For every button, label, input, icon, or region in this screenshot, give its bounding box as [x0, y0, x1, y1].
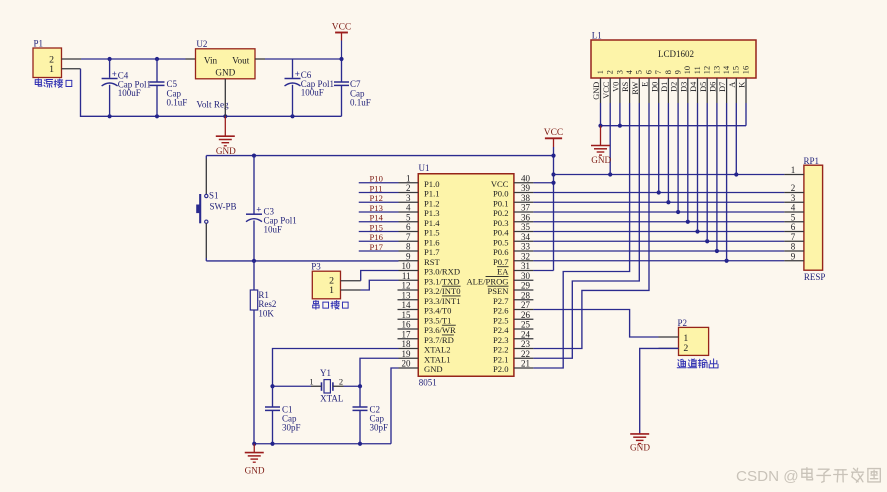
pin P2.1 [659, 336, 679, 338]
svg-text:4: 4 [791, 203, 796, 213]
svg-text:38: 38 [521, 193, 531, 203]
label C1 value [282, 404, 301, 432]
pin 20 GND [399, 359, 443, 374]
wire D3 drop [687, 103, 689, 222]
capacitor C6 [285, 59, 301, 116]
label C6 value [301, 70, 334, 98]
wire [359, 240, 399, 242]
label C2 value [370, 404, 389, 432]
svg-text:P3.4/T0: P3.4/T0 [424, 306, 451, 316]
svg-text:P16: P16 [370, 232, 384, 242]
junction [358, 442, 362, 446]
svg-text:11: 11 [693, 66, 702, 74]
wire [359, 221, 399, 223]
svg-text:2: 2 [683, 343, 688, 354]
junction [657, 190, 661, 194]
svg-text:P2: P2 [678, 318, 688, 328]
svg-text:5: 5 [406, 212, 411, 222]
svg-text:16: 16 [402, 320, 412, 330]
label P2 通道输出 [677, 359, 718, 368]
svg-text:16: 16 [741, 66, 750, 74]
wire [359, 231, 399, 233]
svg-text:RS: RS [621, 81, 630, 92]
svg-text:30pF: 30pF [370, 423, 389, 433]
svg-text:23: 23 [521, 339, 531, 349]
svg-text:Volt Reg: Volt Reg [196, 100, 229, 110]
wire VCC stem to EA [553, 147, 555, 271]
svg-text:P14: P14 [370, 213, 384, 223]
svg-text:P1.6: P1.6 [424, 237, 440, 247]
svg-text:VCC: VCC [332, 23, 352, 33]
pin 2 P1.1 [399, 183, 440, 198]
svg-text:29: 29 [521, 281, 531, 291]
pin 24 P2.3 [493, 329, 533, 344]
pin P2.2 [659, 347, 679, 349]
svg-text:2: 2 [406, 183, 411, 193]
pin 9 RP1 [784, 251, 804, 261]
pin 6 E [641, 70, 654, 103]
svg-text:6: 6 [791, 222, 796, 232]
junction [252, 154, 256, 158]
svg-text:CSDN @: CSDN @ [736, 468, 799, 485]
svg-text:1: 1 [329, 285, 334, 296]
svg-text:28: 28 [521, 290, 531, 300]
svg-text:10: 10 [683, 66, 692, 74]
pin Y1.2 [333, 385, 344, 387]
svg-text:P0.2: P0.2 [493, 208, 509, 218]
svg-text:D6: D6 [709, 82, 718, 92]
pin U2 Vin [186, 58, 196, 60]
svg-text:13: 13 [402, 290, 412, 300]
svg-text:A: A [728, 82, 737, 88]
svg-text:D2: D2 [670, 82, 679, 92]
pin 14 D7 [718, 65, 731, 103]
resistor pack RP1 [804, 165, 823, 270]
svg-text:Vout: Vout [232, 55, 250, 65]
junction [608, 172, 612, 176]
svg-text:GND: GND [591, 155, 611, 165]
wire P0.7 bus [533, 260, 784, 262]
svg-text:8: 8 [406, 242, 411, 252]
svg-text:33: 33 [521, 242, 531, 252]
svg-text:E: E [641, 82, 650, 87]
svg-text:10: 10 [402, 261, 412, 271]
pin 33 P0.6 [493, 242, 533, 257]
pin 10 D3 [679, 66, 692, 103]
svg-text:GND: GND [245, 465, 265, 475]
pin 10 P3.0/RXD [399, 261, 461, 276]
wire E net [533, 103, 649, 349]
capacitor C1 [265, 386, 280, 444]
pin 31 EA [497, 261, 533, 276]
svg-text:37: 37 [521, 203, 531, 213]
pin 40 VCC [491, 173, 534, 188]
pin 5 RP1 [784, 212, 804, 222]
wire P0.5 bus [533, 240, 784, 242]
svg-text:P2.5: P2.5 [493, 315, 509, 325]
svg-text:P3.0/RXD: P3.0/RXD [424, 267, 460, 277]
svg-text:U2: U2 [196, 39, 207, 49]
junction [666, 200, 670, 204]
junction [551, 181, 555, 185]
pin 37 P0.2 [493, 203, 533, 218]
pin 16 P3.6/WR [398, 320, 457, 335]
connector P1 [33, 39, 62, 78]
svg-text:P2.1: P2.1 [493, 354, 509, 364]
svg-text:EA: EA [497, 267, 509, 277]
pin 3 RP1 [784, 193, 804, 203]
wire P3.2 to RXD [361, 271, 399, 281]
svg-text:32: 32 [521, 251, 530, 261]
svg-text:SW-PB: SW-PB [210, 201, 237, 211]
svg-text:P0.7: P0.7 [493, 257, 509, 267]
pin 7 P1.6 [399, 232, 441, 247]
pin 35 P0.4 [493, 222, 533, 237]
pin 15 A [728, 66, 741, 103]
svg-text:P0.4: P0.4 [493, 228, 509, 238]
svg-text:VCC: VCC [491, 179, 509, 189]
junction [155, 57, 159, 61]
svg-text:P1.0: P1.0 [424, 179, 440, 189]
svg-text:P3.5/T1: P3.5/T1 [424, 315, 451, 325]
junction [270, 442, 274, 446]
svg-text:9: 9 [791, 251, 796, 261]
svg-text:8: 8 [664, 70, 673, 74]
pin 13 P3.3/INT1 [398, 290, 461, 305]
svg-text:P3.1/TXD: P3.1/TXD [424, 276, 460, 286]
junction [290, 114, 294, 118]
svg-text:100uF: 100uF [118, 88, 141, 98]
wire D6 drop [716, 103, 718, 251]
svg-text:1: 1 [596, 70, 605, 74]
svg-text:11: 11 [402, 271, 411, 281]
svg-text:P13: P13 [370, 203, 383, 213]
svg-text:9: 9 [674, 70, 683, 74]
pin P1.2 [62, 58, 82, 60]
wire P0.0 bus [533, 192, 784, 194]
pin P3.1 [341, 289, 361, 291]
pin 30 ALE/PROG [466, 271, 533, 286]
pin 7 RP1 [784, 232, 804, 242]
pin 1 P1.0 [399, 173, 440, 188]
svg-text:40: 40 [521, 173, 531, 183]
pin U2 GND [224, 79, 226, 117]
pin 8 RP1 [784, 242, 804, 252]
pin U2 Vout [255, 58, 265, 60]
svg-text:RP1: RP1 [804, 156, 820, 166]
watermark CSDN [736, 468, 880, 485]
svg-text:P1.7: P1.7 [424, 247, 440, 257]
svg-text:GND: GND [592, 82, 601, 100]
junction [339, 57, 343, 61]
wire [359, 201, 399, 203]
svg-text:36: 36 [521, 212, 531, 222]
wire [600, 103, 602, 126]
junction [270, 384, 274, 388]
wire P0.6 bus [533, 250, 784, 252]
ic U1 8051 body [418, 174, 514, 377]
crystal Y1 [309, 368, 343, 393]
label C7 value [350, 79, 371, 107]
svg-text:P1.1: P1.1 [424, 189, 440, 199]
wire [735, 103, 737, 175]
voltage regulator U2 [196, 39, 256, 79]
wire pin40 VCC [533, 182, 553, 184]
pin P1.1 [62, 68, 81, 70]
capacitor C4 [102, 59, 118, 116]
wire D4 drop [697, 103, 699, 232]
svg-text:8051: 8051 [419, 377, 437, 387]
junction [223, 114, 227, 118]
pin 22 P2.1 [493, 349, 533, 364]
capacitor C2 [353, 386, 368, 444]
svg-text:6: 6 [406, 222, 411, 232]
svg-text:P0.6: P0.6 [493, 247, 509, 257]
junction [705, 239, 709, 243]
svg-text:5: 5 [791, 212, 796, 222]
wire P0.1 bus [533, 201, 784, 203]
pin 4 P1.3 [399, 203, 440, 218]
pin 26 P2.5 [493, 310, 533, 325]
svg-text:6: 6 [644, 70, 653, 74]
svg-text:GND: GND [215, 68, 235, 78]
wire LCD GND row [601, 125, 747, 127]
svg-text:15: 15 [732, 66, 741, 74]
svg-text:13: 13 [712, 66, 721, 74]
label C5 value [167, 79, 188, 107]
wire D1 drop [667, 103, 669, 202]
svg-text:0.1uF: 0.1uF [167, 97, 188, 107]
pin 4 RS [621, 69, 634, 103]
pin 3 V0 [612, 70, 625, 103]
svg-text:26: 26 [521, 310, 531, 320]
svg-text:GND: GND [630, 442, 650, 452]
svg-text:D1: D1 [660, 82, 669, 92]
capacitor C7 [334, 59, 349, 116]
wire [359, 211, 399, 213]
junction [551, 154, 555, 158]
svg-text:XTAL1: XTAL1 [424, 354, 451, 364]
svg-text:10uF: 10uF [264, 224, 283, 234]
svg-text:P1: P1 [34, 39, 44, 49]
svg-text:7: 7 [406, 232, 411, 242]
svg-text:7: 7 [791, 232, 796, 242]
wire [359, 182, 399, 184]
svg-text:0.1uF: 0.1uF [350, 97, 371, 107]
wire P2.6 to P2 connector [533, 310, 658, 338]
svg-text:P2.2: P2.2 [493, 345, 509, 355]
svg-text:P1.5: P1.5 [424, 228, 440, 238]
pin 23 P2.2 [493, 339, 533, 354]
svg-text:3: 3 [615, 70, 624, 74]
switch S1 [196, 156, 208, 261]
svg-text:1: 1 [49, 64, 54, 75]
svg-text:1: 1 [309, 377, 313, 387]
pin 38 P0.1 [493, 193, 533, 208]
svg-text:25: 25 [521, 320, 531, 330]
svg-text:34: 34 [521, 232, 531, 242]
wire [609, 103, 611, 175]
wire [745, 103, 747, 126]
wire [619, 103, 621, 126]
wire P0.4 bus [533, 231, 784, 233]
pin 1 RP1 [784, 165, 804, 175]
junction [676, 210, 680, 214]
label C3 value [264, 207, 297, 235]
pin 11 D4 [689, 66, 702, 103]
wire GND pin20 [391, 368, 399, 444]
svg-text:22: 22 [521, 349, 530, 359]
pin 6 P1.5 [399, 222, 440, 237]
wire [359, 250, 399, 252]
svg-text:D5: D5 [699, 82, 708, 92]
label R1 value [258, 290, 276, 318]
pin P3.2 [341, 280, 361, 282]
wire Y1.2 [344, 385, 361, 387]
svg-text:1: 1 [791, 165, 796, 175]
svg-text:RST: RST [424, 257, 441, 267]
svg-text:P11: P11 [370, 183, 383, 193]
svg-text:RESP: RESP [804, 272, 826, 282]
pin 36 P0.3 [493, 212, 533, 227]
svg-text:P3.6/WR: P3.6/WR [424, 325, 456, 335]
svg-text:39: 39 [521, 183, 531, 193]
wire RS net [533, 103, 629, 368]
connector P3 [311, 262, 340, 299]
wire P1.1 to ground rail [81, 69, 342, 117]
svg-text:3: 3 [791, 193, 796, 203]
pin 39 P0.0 [493, 183, 533, 198]
pin 5 RW [631, 70, 644, 103]
pin 9 D2 [670, 70, 683, 103]
svg-text:12: 12 [703, 66, 712, 74]
svg-text:12: 12 [402, 281, 411, 291]
svg-text:P3: P3 [311, 262, 321, 272]
svg-text:GND: GND [216, 146, 236, 156]
svg-text:14: 14 [402, 300, 412, 310]
junction [734, 172, 738, 176]
svg-text:1: 1 [406, 173, 411, 183]
svg-text:P2.4: P2.4 [493, 325, 509, 335]
wire Y1.1 [273, 385, 312, 387]
wire P2.2 to ground [640, 348, 679, 433]
svg-text:D3: D3 [679, 82, 688, 92]
svg-text:24: 24 [521, 329, 531, 339]
pin 7 D0 [650, 70, 663, 103]
pin 27 P2.6 [493, 300, 533, 315]
svg-text:P2.3: P2.3 [493, 335, 509, 345]
junction [551, 172, 555, 176]
svg-text:P1.3: P1.3 [424, 208, 440, 218]
junction [695, 229, 699, 233]
svg-text:L1: L1 [592, 30, 602, 40]
svg-text:U1: U1 [419, 163, 430, 173]
wire XTAL2 net [273, 349, 399, 387]
wire VCC row to RP1 [554, 174, 785, 176]
svg-text:GND: GND [424, 364, 443, 374]
junction [725, 259, 729, 263]
pin 4 RP1 [784, 203, 804, 213]
svg-text:+: + [295, 69, 300, 79]
svg-text:31: 31 [521, 261, 530, 271]
pin 13 D6 [709, 66, 722, 103]
svg-text:LCD1602: LCD1602 [658, 49, 694, 59]
pin 16 K [738, 66, 751, 103]
svg-text:P1.2: P1.2 [424, 198, 440, 208]
pin 21 P2.0 [493, 359, 533, 374]
wire D5 drop [706, 103, 708, 241]
wire EA to VCC [533, 270, 553, 272]
svg-text:7: 7 [654, 70, 663, 74]
junction [108, 57, 112, 61]
pin 17 P3.7/RD [398, 329, 454, 344]
svg-text:+: + [256, 205, 261, 215]
svg-text:K: K [738, 82, 747, 88]
svg-text:30: 30 [521, 271, 531, 281]
svg-text:P0.3: P0.3 [493, 218, 509, 228]
wire [359, 192, 399, 194]
wire VCC rail [206, 155, 553, 157]
svg-text:Y1: Y1 [320, 368, 331, 378]
ic L1 LCD1602 body [591, 40, 756, 78]
pin 18 XTAL2 [399, 339, 451, 354]
pin 11 P3.1/TXD [399, 271, 460, 286]
svg-text:P1.4: P1.4 [424, 218, 440, 228]
svg-text:PSEN: PSEN [487, 286, 509, 296]
svg-text:100uF: 100uF [301, 88, 324, 98]
svg-text:P0.1: P0.1 [493, 198, 509, 208]
svg-text:P3.3/INT1: P3.3/INT1 [424, 296, 461, 306]
svg-text:21: 21 [521, 359, 530, 369]
wire D2 drop [677, 103, 679, 212]
svg-text:D0: D0 [650, 82, 659, 92]
wire D0 drop [658, 103, 660, 193]
svg-text:15: 15 [402, 310, 412, 320]
svg-text:3: 3 [406, 193, 411, 203]
svg-text:P2.7: P2.7 [493, 296, 509, 306]
pin 2 RP1 [784, 183, 804, 193]
svg-text:XTAL: XTAL [320, 394, 343, 404]
junction [108, 114, 112, 118]
svg-text:P0.5: P0.5 [493, 237, 509, 247]
svg-text:V0: V0 [612, 82, 621, 92]
svg-text:14: 14 [722, 65, 731, 74]
ground GND under U2 [216, 116, 236, 156]
svg-text:RW: RW [631, 82, 640, 95]
svg-text:5: 5 [635, 70, 644, 74]
svg-text:10K: 10K [258, 308, 274, 318]
junction [252, 442, 256, 446]
pin 32 P0.7 [493, 251, 533, 266]
junction [686, 220, 690, 224]
wire ground rail bottom [254, 443, 391, 445]
label S1 SW-PB [209, 191, 237, 212]
svg-text:P0.0: P0.0 [493, 189, 509, 199]
svg-text:P17: P17 [370, 242, 384, 252]
wire P0.3 bus [533, 221, 784, 223]
pin 14 P3.4/T0 [398, 300, 452, 315]
ground GND bottom left [245, 444, 265, 476]
wire RW net [533, 103, 639, 358]
pin 3 P1.2 [399, 193, 440, 208]
svg-text:8: 8 [791, 242, 796, 252]
svg-text:20: 20 [402, 359, 412, 369]
svg-text:P15: P15 [370, 222, 383, 232]
wire VIN top rail [81, 58, 186, 60]
junction [715, 249, 719, 253]
svg-text:30pF: 30pF [282, 423, 301, 433]
ground GND under P2 [630, 433, 650, 452]
